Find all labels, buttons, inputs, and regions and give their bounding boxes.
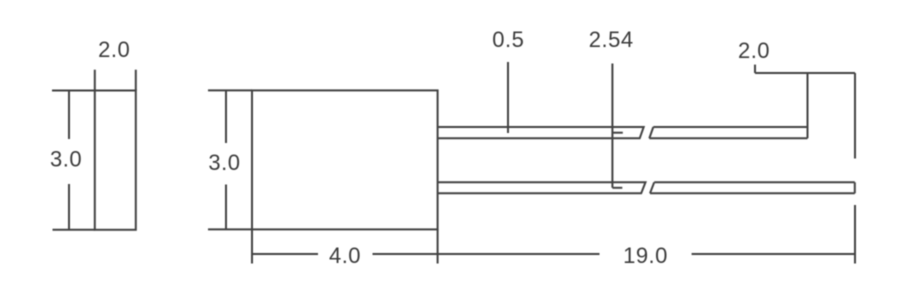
side-view width extension tick right <box>135 70 137 91</box>
svg-text:2.0: 2.0 <box>738 38 770 63</box>
top lead end cap / 2.0 extension <box>807 73 809 138</box>
svg-text:2.0: 2.0 <box>98 37 130 62</box>
2.54 hook top lead <box>612 132 622 134</box>
bottom dimension line segment 2 <box>373 253 600 255</box>
main height dimension line lower <box>225 185 227 230</box>
side-view height dimension line lower <box>68 184 70 230</box>
top lead segment 2 <box>649 127 807 138</box>
side-view width extension tick left <box>94 70 96 91</box>
main height dimension line upper <box>225 90 227 143</box>
right extension line lower part <box>854 205 856 264</box>
top right 2.0 dimension line <box>755 72 855 74</box>
bottom dimension line segment 1 <box>252 253 318 255</box>
svg-text:4.0: 4.0 <box>329 243 361 268</box>
body right lower extension <box>437 229 439 263</box>
svg-text:0.5: 0.5 <box>492 27 524 52</box>
top right 2.0 left tick <box>754 65 756 73</box>
top lead segment 1 <box>438 127 644 138</box>
bottom dimension line segment 3 <box>692 253 855 255</box>
body left lower extension <box>251 229 253 263</box>
bottom lead segment 2 <box>650 182 855 193</box>
0.5 leader line <box>507 62 509 133</box>
side-view top extension line <box>52 90 95 92</box>
side-view height dimension line upper <box>68 91 70 140</box>
2.54 leader line <box>611 64 613 188</box>
svg-text:2.54: 2.54 <box>589 27 634 52</box>
2.54 hook bottom lead <box>612 187 622 189</box>
bottom lead end cap <box>854 182 856 193</box>
svg-text:19.0: 19.0 <box>623 243 668 268</box>
right extension line upper part <box>854 73 856 159</box>
svg-text:3.0: 3.0 <box>50 147 82 172</box>
svg-text:3.0: 3.0 <box>208 150 240 175</box>
main height top extension line <box>208 89 252 91</box>
main height bottom extension line <box>208 228 252 230</box>
main body rectangle <box>252 90 438 229</box>
side-view bottom extension line <box>53 229 95 231</box>
bottom lead segment 1 <box>438 182 646 193</box>
side-view body rectangle <box>95 91 136 230</box>
